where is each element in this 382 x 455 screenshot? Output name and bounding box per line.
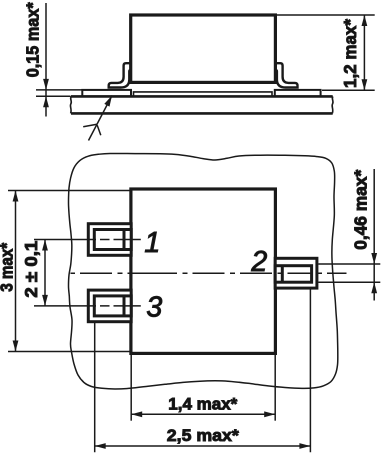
board (PCB) top and bottom lines xyxy=(71,96,333,113)
extension line: body right bottom (1,4) xyxy=(274,355,276,421)
pin 1 pad (outer rectangle) xyxy=(88,224,131,256)
board fragment wavy outline xyxy=(69,153,338,389)
extension line: pin2 top right (0,46) xyxy=(318,263,380,265)
pin 2 pad (outer rectangle) xyxy=(275,258,317,288)
svg-text:1,4 max*: 1,4 max* xyxy=(168,395,237,414)
middle pad line under body xyxy=(134,92,273,96)
svg-text:2: 2 xyxy=(250,246,267,278)
extension line: body left bottom (1,4) xyxy=(130,355,132,421)
pin 3 foot edge xyxy=(123,296,126,316)
extension line: pin1/3 lead tips (2,5) xyxy=(94,323,96,453)
dimension line 3 max xyxy=(15,191,17,352)
extension line: body top left (3 max) xyxy=(8,190,131,192)
arrow down to seam (0,15 upper) xyxy=(43,79,49,90)
leader arrow to solder joint xyxy=(89,96,113,141)
center line pin 2 xyxy=(71,272,347,274)
pin 2 lead (inner rectangle) xyxy=(275,266,311,283)
svg-text:2 ± 0,1: 2 ± 0,1 xyxy=(21,240,41,297)
pin 3 pad (outer rectangle) xyxy=(88,290,131,322)
center line pin 1 xyxy=(34,239,141,241)
board left break (wavy edge) xyxy=(69,96,72,113)
arrow up (1,2 top) xyxy=(362,15,368,26)
extension line: seating plane right xyxy=(322,89,375,91)
board right break (wavy edge) xyxy=(331,96,334,113)
extension line: pin2 bottom right (0,46) xyxy=(318,281,380,283)
arrow down (3 max bottom) xyxy=(13,341,19,352)
svg-text:2,5 max*: 2,5 max* xyxy=(167,426,239,445)
arrow down (2+-0,1 bottom) xyxy=(42,295,48,306)
svg-text:0,46 max*: 0,46 max* xyxy=(350,170,370,250)
package body (plan view) xyxy=(131,189,276,353)
center line pin 3 xyxy=(34,305,141,307)
dimension line 0,46 xyxy=(373,169,375,301)
pin 1 foot edge xyxy=(123,230,126,250)
dimension line 1,4 max xyxy=(131,413,275,415)
extension line: board top left xyxy=(36,95,71,97)
extension line: body top to right xyxy=(277,14,375,16)
package body (side view) xyxy=(131,15,276,82)
dimension line 1,2 max xyxy=(363,15,365,90)
svg-text:3: 3 xyxy=(146,292,162,324)
extension line: lead foot bottom left xyxy=(36,89,109,91)
dimension line 2 +- 0,1 xyxy=(44,240,46,306)
svg-text:1,2 max*: 1,2 max* xyxy=(340,19,360,88)
pin 2 foot edge xyxy=(281,266,284,283)
arrow left (1,4) xyxy=(131,411,142,417)
leader fork branch right xyxy=(97,125,101,135)
arrow up (2+-0,1 top) xyxy=(42,240,48,251)
left lead (gull-wing) xyxy=(109,63,132,87)
dimension line 2,5 max xyxy=(95,445,311,447)
arrow right (1,4) xyxy=(264,411,275,417)
svg-text:1: 1 xyxy=(144,227,160,259)
pin 1 lead (inner rectangle) xyxy=(94,230,131,250)
svg-text:3 max*: 3 max* xyxy=(0,243,16,292)
arrow up to board (0,15 lower) xyxy=(43,96,49,107)
svg-text:0,15 max*: 0,15 max* xyxy=(22,2,42,77)
arrow up (0,46 lower) xyxy=(371,282,377,293)
right solder pad xyxy=(275,90,321,97)
arrow down (0,46 upper) xyxy=(371,253,377,264)
dimension line 0,15 max xyxy=(45,3,47,117)
right lead (gull-wing, mirrored) xyxy=(275,63,298,87)
arrow left (2,5) xyxy=(95,443,106,449)
arrow down (1,2 bottom) xyxy=(362,79,368,90)
left solder pad xyxy=(82,90,131,97)
extension line: body bottom left (3 max) xyxy=(8,351,131,353)
leader fork branch left xyxy=(83,124,97,127)
pin 3 lead (inner rectangle) xyxy=(94,296,131,316)
leader arrowhead xyxy=(104,96,112,107)
arrow right (2,5) xyxy=(299,443,310,449)
extension line: pin2 lead tip (2,5) xyxy=(309,290,311,453)
arrow up (3 max top) xyxy=(13,191,19,202)
